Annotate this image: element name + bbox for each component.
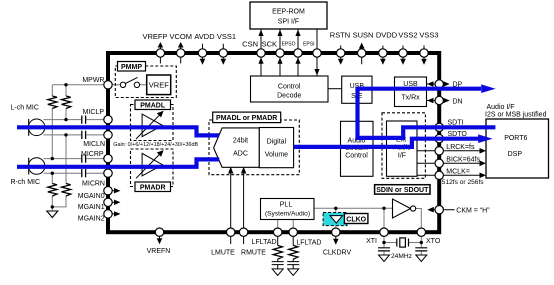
pin stub VSS1 down arrow xyxy=(222,44,224,60)
svg-text:CSN: CSN xyxy=(242,40,258,49)
pin RMUTE xyxy=(239,228,247,236)
label box PMMP xyxy=(118,62,146,72)
svg-text:MGAIN1: MGAIN1 xyxy=(78,204,105,211)
svg-text:MCLK=: MCLK= xyxy=(446,169,470,176)
resistor MICLN pulldown xyxy=(62,184,71,197)
wire blue L-ch signal path xyxy=(17,127,219,135)
box VREF xyxy=(147,75,171,95)
arrowhead blue DP out xyxy=(481,84,495,93)
wire MICRN line xyxy=(44,172,107,174)
pin MGAIN1 xyxy=(104,198,112,206)
pin DP xyxy=(435,80,443,88)
label box PMADL or PMADR xyxy=(213,112,281,123)
pin VSS2 xyxy=(399,49,407,57)
junction dots crystal xyxy=(382,241,385,244)
pin VSS3 xyxy=(420,49,428,57)
pin SUSN xyxy=(358,49,366,57)
svg-text:SCK: SCK xyxy=(262,40,277,49)
svg-text:PMMP: PMMP xyxy=(121,64,142,71)
crystal 24MHz xyxy=(397,239,409,247)
svg-text:Gain: 0/+6/+12/+18/+24/+30/+36: Gain: 0/+6/+12/+18/+24/+30/+36dB xyxy=(113,142,198,148)
pin stub DVDD down arrow xyxy=(382,46,384,60)
svg-text:VSS1: VSS1 xyxy=(217,32,236,41)
svg-text:Decode: Decode xyxy=(277,93,301,100)
label box PMADL xyxy=(135,100,171,110)
pin MCLK xyxy=(435,171,443,179)
pin EPSI xyxy=(313,49,321,57)
svg-text:VREFP: VREFP xyxy=(142,32,167,41)
capacitor MICRP xyxy=(82,155,86,163)
svg-text:XTO: XTO xyxy=(426,238,441,245)
wire CKM arrow xyxy=(429,209,455,211)
capacitor MICLP xyxy=(82,116,86,124)
junction dots mic network xyxy=(51,83,68,208)
ADC pentagon 24bit ADC xyxy=(214,128,260,167)
ground XTI cap xyxy=(379,255,390,262)
wire MICLP line xyxy=(44,119,107,121)
wire ground stub below R mic network xyxy=(51,207,53,211)
wire XTI to crystal to XTO xyxy=(384,236,421,242)
wire LRCK to DSP xyxy=(417,150,480,152)
svg-text:PMADL or PMADR: PMADL or PMADR xyxy=(216,115,277,122)
capacitor MICRN xyxy=(82,169,86,177)
pin VREFP xyxy=(156,49,164,57)
pin BICK xyxy=(435,159,443,167)
svg-text:VSS3: VSS3 xyxy=(419,31,438,40)
pin VREFN xyxy=(155,228,163,236)
box USB S/E xyxy=(342,76,372,103)
svg-text:PMADL: PMADL xyxy=(140,103,166,110)
pin SCK xyxy=(276,49,284,57)
svg-text:EPSO: EPSO xyxy=(282,42,296,48)
resistor mic bias R2 xyxy=(62,96,71,109)
label box CLKO xyxy=(344,214,368,224)
svg-text:VREFN: VREFN xyxy=(147,248,171,255)
PART:PINCIRCLES xyxy=(104,49,444,237)
pin stub VCOM up arrow and inner stub xyxy=(180,46,182,63)
dashed box Ext Audio I/F xyxy=(382,113,425,179)
svg-text:DSP: DSP xyxy=(508,151,523,158)
dashed box PMADR xyxy=(131,149,174,187)
wire pulldown resistor bottoms to ground xyxy=(52,196,66,207)
svg-text:MGAIN0: MGAIN0 xyxy=(78,193,105,200)
op-amp PGA R triangle xyxy=(142,153,162,176)
svg-text:RSTN: RSTN xyxy=(330,31,350,40)
pin CSN xyxy=(257,49,265,57)
gain arrow PGA L xyxy=(136,113,161,139)
wire MICRN pulldown drop xyxy=(51,173,53,183)
PART:BLUE xyxy=(17,89,495,167)
PART:TEXT xyxy=(142,31,438,49)
crystal load capacitors xyxy=(378,248,427,251)
box Control Decode xyxy=(251,76,329,102)
box Audio Stream Control xyxy=(341,121,374,176)
wire inverter output to XTO xyxy=(416,209,422,229)
pin stub LMUTE xyxy=(230,236,232,244)
svg-text:PLL: PLL xyxy=(280,202,293,209)
pin stub VREFP up arrow xyxy=(159,46,161,63)
EEPROM vertical wires CSN SCK EPSO with arrows xyxy=(261,29,298,49)
wire bias R1 drop to MICRP xyxy=(51,85,53,159)
box EEP-ROM SPI I/F xyxy=(250,2,327,29)
svg-text:MGAIN2: MGAIN2 xyxy=(78,216,105,223)
resistor MICRN pulldown xyxy=(48,184,57,197)
wire DP bidirectional xyxy=(427,83,445,85)
switch PMMP xyxy=(120,77,139,87)
svg-text:AVDD: AVDD xyxy=(194,32,215,41)
svg-text:Digital: Digital xyxy=(267,139,287,146)
wire bias R2 drop to MICLP xyxy=(65,85,67,120)
svg-text:R-ch MIC: R-ch MIC xyxy=(11,179,41,186)
pin XTO xyxy=(417,228,425,236)
svg-text:XTI: XTI xyxy=(366,238,377,245)
pin stub VSS3 down arrow xyxy=(423,46,425,60)
pin stub RMUTE xyxy=(243,236,245,244)
wire MCLK to DSP xyxy=(417,174,480,176)
box PLL System/Audio xyxy=(261,199,315,220)
pin AVDD xyxy=(198,49,206,57)
pin MGAIN0 xyxy=(104,187,112,195)
pin stub CLKDRV down arrow xyxy=(335,236,337,239)
wire SDTI SDTO inner stubs xyxy=(417,127,435,138)
pin LRCK xyxy=(435,147,443,155)
pin MICRP xyxy=(104,154,112,162)
arrowhead blue SDTO into DSP xyxy=(478,134,492,143)
pin CLKDRV xyxy=(332,228,340,236)
wire MICLN pulldown drop xyxy=(65,135,67,184)
pin LFLTAD1 xyxy=(274,228,282,236)
svg-text:MICRN: MICRN xyxy=(82,181,105,188)
pin VCOM xyxy=(177,49,185,57)
svg-text:RMUTE: RMUTE xyxy=(241,250,266,257)
MGAIN1 input arrow xyxy=(113,201,115,203)
box Ext Audio I/F xyxy=(387,121,418,176)
pin MICRN xyxy=(104,169,112,177)
chip outline border xyxy=(108,53,439,232)
dashed box PMADL xyxy=(131,105,174,141)
wire BICK to DSP xyxy=(417,162,480,164)
svg-text:Audio I/F: Audio I/F xyxy=(487,104,515,111)
pin MICLN xyxy=(104,131,112,139)
op-amp PGA L triangle xyxy=(142,114,162,137)
pin SDTO xyxy=(435,134,443,142)
EEPROM vertical wire EPSI with down arrow xyxy=(316,29,318,76)
wire MICLN line xyxy=(44,134,107,136)
dashed box PMADL or PMADR xyxy=(209,120,299,175)
svg-text:LRCK=fs: LRCK=fs xyxy=(446,144,475,151)
pin EPSO xyxy=(294,49,302,57)
svg-text:VSS2: VSS2 xyxy=(398,31,417,40)
capacitor MICLN xyxy=(82,131,86,139)
MGAIN0 input arrow xyxy=(113,190,115,192)
box DSP PORT6 xyxy=(486,119,549,178)
svg-text:EEP-ROM: EEP-ROM xyxy=(272,9,305,16)
pin VSS1 xyxy=(219,49,227,57)
svg-text:(System/Audio): (System/Audio) xyxy=(265,211,310,218)
pin MICLP xyxy=(104,115,112,123)
svg-text:MICLP: MICLP xyxy=(83,109,105,116)
svg-text:DN: DN xyxy=(453,99,463,106)
gain arrow PGA R xyxy=(136,153,161,179)
svg-text:512fs or 256fs: 512fs or 256fs xyxy=(442,179,484,186)
svg-text:CKM = “H”: CKM = “H” xyxy=(456,208,490,215)
junction dots clock line xyxy=(334,207,337,210)
svg-text:Tx/Rx: Tx/Rx xyxy=(401,95,420,102)
svg-text:CLKO: CLKO xyxy=(346,217,366,224)
pin RSTN xyxy=(337,49,345,57)
dashed box PMMP xyxy=(115,66,176,98)
svg-text:DVDD: DVDD xyxy=(376,31,398,40)
pin SDTI xyxy=(435,123,443,131)
box USB Tx/Rx xyxy=(395,77,427,107)
ground mic network xyxy=(47,211,58,218)
wire Control Decode to USB SE xyxy=(328,88,342,90)
PART:BOXES xyxy=(113,29,487,276)
wire blue SDTI to USB path xyxy=(358,89,496,138)
svg-text:PMADR: PMADR xyxy=(140,185,166,192)
mic R capsule xyxy=(28,158,45,175)
wire DN bidirectional xyxy=(427,100,445,102)
pin DVDD xyxy=(379,49,387,57)
label box SDIN or SDOUT xyxy=(375,185,430,194)
svg-text:LFLTAD: LFLTAD xyxy=(252,239,277,246)
wire PLL to LFLTAD pins xyxy=(278,220,294,229)
pin DN xyxy=(435,96,443,104)
pin MGAIN2 xyxy=(104,210,112,218)
pin XTI xyxy=(380,228,388,236)
svg-text:SPI I/F: SPI I/F xyxy=(278,19,299,26)
wire PLL to inverter xyxy=(314,207,393,209)
svg-text:LFLTAD: LFLTAD xyxy=(296,240,321,247)
inverter buffer triangle xyxy=(393,199,411,218)
svg-text:I/F: I/F xyxy=(398,153,406,160)
wire blue R-ch signal path xyxy=(17,159,219,166)
pin stub AVDD down arrow xyxy=(202,44,204,60)
LFLTAD2 RC chain xyxy=(292,236,294,245)
wire MICRP line xyxy=(44,158,107,160)
svg-text:Volume: Volume xyxy=(265,152,288,159)
pin stub SUSN up arrow and inner stub xyxy=(361,48,363,65)
PART:WIRES xyxy=(44,85,422,255)
pin LFLTAD2 xyxy=(289,228,297,236)
pin CKM xyxy=(435,206,443,214)
wire switch to VREF xyxy=(113,84,147,86)
wire CLKO tap down xyxy=(335,208,337,228)
svg-text:24MHz: 24MHz xyxy=(391,253,412,260)
svg-text:Control: Control xyxy=(345,152,368,159)
svg-text:EPSI: EPSI xyxy=(303,42,314,48)
svg-text:I2S or MSB justified: I2S or MSB justified xyxy=(485,112,547,119)
ground XTO cap xyxy=(416,255,427,262)
pin stub VREFN down arrow xyxy=(159,236,161,239)
svg-text:LMUTE: LMUTE xyxy=(211,250,235,257)
svg-text:VREF: VREF xyxy=(149,80,169,89)
box Digital Volume xyxy=(259,128,293,168)
resistor mic bias R1 xyxy=(48,96,57,109)
CLKO probe marker cyan xyxy=(323,213,347,226)
wire XTI feed down xyxy=(383,208,385,228)
svg-text:PORT6: PORT6 xyxy=(504,135,527,142)
pin stub VSS2 down arrow xyxy=(402,46,404,60)
svg-text:CLKDRV: CLKDRV xyxy=(323,250,352,257)
mic L capsule xyxy=(28,119,45,136)
svg-text:SDIN or SDOUT: SDIN or SDOUT xyxy=(376,187,429,194)
wire crystal caps drops xyxy=(384,243,421,256)
wire MPWR rail xyxy=(52,84,106,86)
svg-text:ADC: ADC xyxy=(233,151,248,158)
label box PMADR xyxy=(135,182,171,192)
svg-text:MPWR: MPWR xyxy=(82,77,104,84)
svg-text:24bit: 24bit xyxy=(233,138,248,145)
pin LMUTE xyxy=(227,228,235,236)
LFLTAD1 RC chain xyxy=(277,236,279,245)
pin MPWR xyxy=(104,81,112,89)
MGAIN2 input arrow xyxy=(113,213,115,215)
svg-text:BICK=64fs: BICK=64fs xyxy=(446,157,480,164)
wire RMUTE up into ADC xyxy=(243,168,245,228)
svg-text:VCOM: VCOM xyxy=(169,32,192,41)
svg-text:SUSN: SUSN xyxy=(353,31,374,40)
svg-text:Control: Control xyxy=(278,84,301,91)
wire LMUTE up into ADC xyxy=(230,168,232,228)
svg-text:MICLN: MICLN xyxy=(83,141,105,148)
wire blue ADC to SDTO out xyxy=(294,139,479,147)
svg-text:L-ch MIC: L-ch MIC xyxy=(11,105,39,112)
svg-text:MICRP: MICRP xyxy=(81,151,104,158)
pin stub RSTN down arrow xyxy=(340,46,342,60)
